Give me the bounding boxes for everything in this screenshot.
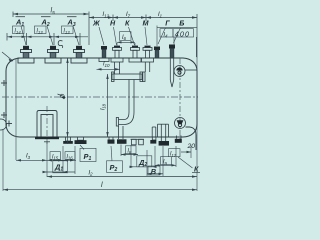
svg-text:l16: l16 [67, 154, 74, 160]
svg-text:В: В [151, 167, 157, 176]
svg-text:D: D [60, 93, 67, 98]
svg-text:Б: Б [179, 19, 184, 28]
svg-text:Ж: Ж [92, 19, 100, 28]
svg-text:l14: l14 [15, 29, 22, 35]
svg-text:К: К [125, 19, 130, 28]
svg-text:l9: l9 [163, 160, 167, 166]
svg-text:М: М [143, 19, 150, 28]
svg-text:20: 20 [187, 143, 196, 150]
svg-text:l15: l15 [52, 154, 59, 160]
svg-text:l13: l13 [64, 29, 71, 35]
svg-text:Г: Г [165, 19, 170, 28]
svg-text:К: К [194, 164, 199, 173]
svg-text:400: 400 [175, 29, 190, 38]
svg-text:l17: l17 [170, 152, 177, 158]
svg-text:l13: l13 [37, 29, 44, 35]
svg-text:Н: Н [110, 19, 116, 28]
svg-text:l18: l18 [100, 103, 106, 110]
